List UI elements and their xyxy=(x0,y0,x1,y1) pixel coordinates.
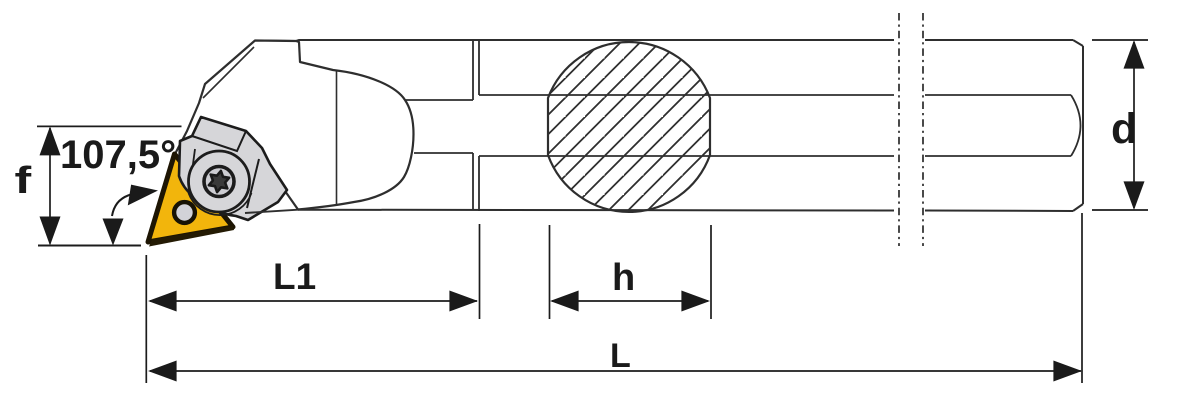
h dimension line xyxy=(552,300,708,302)
clamp arm facet line xyxy=(247,159,259,208)
L1 right extension line xyxy=(479,224,481,319)
break line left xyxy=(898,13,900,246)
bar lower flat line head side xyxy=(414,152,473,154)
h right extension line xyxy=(710,225,712,319)
bar upper flat line head side xyxy=(405,99,473,101)
right end blend curve xyxy=(1071,95,1081,156)
f arrow up xyxy=(40,126,61,155)
L arrow right xyxy=(1053,361,1082,382)
bar bottom-right chamfer xyxy=(1073,204,1083,211)
angle arrow down xyxy=(103,219,124,246)
h left extension line xyxy=(549,225,551,319)
L1 arrow right xyxy=(449,291,478,312)
f top extension line (centerline ref) xyxy=(37,125,182,127)
L right extension line xyxy=(1081,213,1083,383)
angle arrow right xyxy=(128,185,158,206)
f arrow down xyxy=(40,217,61,246)
bar upper flat line shank side xyxy=(479,94,1071,96)
clamp limb right edge xyxy=(191,149,195,179)
neck transition verticals bottom xyxy=(473,153,479,211)
d arrow down xyxy=(1124,181,1145,210)
neck transition verticals top xyxy=(473,40,479,100)
insert bottom shaded face xyxy=(149,226,234,247)
L1 dimension line xyxy=(150,300,477,302)
svg-text:h: h xyxy=(612,257,635,299)
head front face line xyxy=(336,70,338,206)
insert hole xyxy=(174,202,195,223)
torx star xyxy=(209,171,229,192)
f bottom extension line xyxy=(38,245,141,247)
d arrow up xyxy=(1124,40,1145,69)
angle arc xyxy=(112,194,133,216)
bar bottom edge xyxy=(298,209,894,212)
f dimension line xyxy=(49,128,51,244)
svg-text:d: d xyxy=(1111,105,1137,153)
svg-text:L: L xyxy=(610,337,631,375)
insert (yellow triangle) xyxy=(148,154,234,247)
break line right xyxy=(922,13,924,246)
h arrow right xyxy=(681,291,710,312)
clamp lip arc under boss xyxy=(189,193,252,215)
d bottom extension line xyxy=(1092,209,1148,211)
head chamfer inner line xyxy=(203,47,254,98)
svg-text:L1: L1 xyxy=(273,256,316,297)
clamp body xyxy=(179,117,287,220)
bar top-right chamfer xyxy=(1073,40,1083,46)
cross-section hatched circle xyxy=(540,36,718,218)
bar top edge xyxy=(255,40,894,41)
head outline xyxy=(175,41,414,210)
bar right edge xyxy=(1082,46,1084,204)
clamp plate bottom edge xyxy=(192,131,246,151)
head pocket bottom line xyxy=(245,210,298,213)
d top extension line xyxy=(1092,39,1148,41)
bar lower flat line shank side xyxy=(479,155,1071,157)
torx screw outer xyxy=(204,167,234,197)
L1 left extension line xyxy=(145,255,147,383)
L1 arrow left xyxy=(148,291,177,312)
L dimension line xyxy=(150,370,1081,372)
L arrow left xyxy=(148,361,177,382)
clamp boss circle xyxy=(189,151,250,212)
svg-text:107,5°: 107,5° xyxy=(60,133,176,177)
svg-text:f: f xyxy=(15,160,32,202)
h arrow left xyxy=(550,291,579,312)
d dimension line xyxy=(1133,42,1135,208)
clamp silhouette xyxy=(179,117,287,220)
